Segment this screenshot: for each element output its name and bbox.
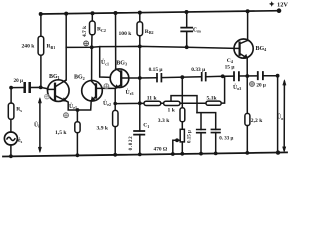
capacitor 20u plates xyxy=(258,72,263,79)
svg-text:RB1: RB1 xyxy=(47,44,56,50)
svg-text:11 k: 11 k xyxy=(147,96,158,102)
resistor 1k body xyxy=(164,101,180,105)
svg-text:12V: 12V xyxy=(277,1,288,8)
test point mark near 1.5k xyxy=(64,113,69,118)
resistor RB2 100k body xyxy=(137,22,143,36)
svg-text:0.15 μ: 0.15 μ xyxy=(188,130,193,143)
arrow Ui measurement xyxy=(39,100,41,151)
test point mark near RC2 xyxy=(84,41,89,46)
resistor RC2 4.7k body xyxy=(90,21,96,35)
wire BG4 collector to rail xyxy=(247,11,249,40)
svg-text:20 μ: 20 μ xyxy=(256,83,265,89)
wire top +12V rail xyxy=(41,11,279,14)
wire shared emitter node to R 1.5k xyxy=(76,110,78,122)
capacitor right bridge plates xyxy=(211,129,220,132)
transistor BG2 xyxy=(82,80,115,101)
resistor 5.1k body xyxy=(206,101,221,105)
arrow Uo xyxy=(283,82,285,151)
capacitor left bridge plates xyxy=(197,130,206,133)
svg-text:BG3: BG3 xyxy=(116,61,127,67)
node junction 5.1k elbow xyxy=(221,74,225,78)
wire BG3 collector to rail xyxy=(115,13,117,69)
test point mark near 20u xyxy=(250,82,255,87)
wire BG3 emitter and BG2 base column xyxy=(114,88,116,103)
wire source to Rs xyxy=(10,119,12,156)
wire BG4 emitter column xyxy=(246,58,248,113)
wire input cap to BG1 base xyxy=(30,87,48,88)
svg-text:5,1k: 5,1k xyxy=(207,95,218,101)
node junction BG4 emitter xyxy=(245,74,249,78)
svg-text:BG1: BG1 xyxy=(49,74,60,80)
svg-text:C4: C4 xyxy=(227,58,233,64)
svg-text:ės: ės xyxy=(18,138,23,144)
svg-text:0.15 μ: 0.15 μ xyxy=(149,67,163,73)
resistor 11k body xyxy=(144,101,161,105)
svg-text:U̇e1: U̇e1 xyxy=(69,103,77,110)
node junction Cm/base-line xyxy=(185,45,189,49)
node junction RC2/base-line xyxy=(90,45,94,49)
wire BG2 emitter down to shared node xyxy=(78,101,92,110)
node junction 470 branch xyxy=(175,138,179,142)
svg-text:RB2: RB2 xyxy=(145,29,154,35)
label +12V supply xyxy=(269,1,288,8)
resistor 2.2k body xyxy=(245,113,250,125)
feedback jog wire xyxy=(171,77,197,129)
wire output column xyxy=(277,76,279,153)
svg-text:U̇e2: U̇e2 xyxy=(103,100,111,107)
transistor BG1 xyxy=(48,80,70,102)
svg-text:15 μ: 15 μ xyxy=(225,65,235,71)
resistor Rs body xyxy=(8,103,14,119)
svg-text:1,5 k: 1,5 k xyxy=(55,130,67,136)
svg-text:C1: C1 xyxy=(143,123,149,129)
svg-text:U̇o3: U̇o3 xyxy=(233,84,241,91)
resistor RC2 4.7k column wire xyxy=(91,13,94,80)
transistor BG4 xyxy=(234,39,253,58)
resistor RB1 240k column wire xyxy=(40,14,42,87)
wire BG3 base from collector line of BG2 xyxy=(100,47,111,78)
wire feedback row xyxy=(115,76,224,103)
svg-text:Rs: Rs xyxy=(16,107,22,113)
node junction y78 wire tap xyxy=(138,76,142,80)
test point mark grey near BG1 base xyxy=(45,94,50,99)
resistor RB1 240k body xyxy=(38,36,44,55)
svg-text:20 μ: 20 μ xyxy=(14,78,23,84)
wire 470 branch xyxy=(173,140,180,153)
resistor 3.9k column xyxy=(114,104,116,155)
capacitor 0.33u plates xyxy=(202,73,206,81)
node output top xyxy=(276,74,280,78)
svg-text:2,2 k: 2,2 k xyxy=(251,118,263,124)
node junction row tap xyxy=(138,101,142,105)
svg-text:U̇e3: U̇e3 xyxy=(126,89,134,96)
source es circle xyxy=(4,132,17,145)
wire base feed line (y47) xyxy=(66,46,234,48)
capacitor 0.15u electrolytic body xyxy=(180,129,184,142)
svg-text:100 k: 100 k xyxy=(119,31,133,37)
svg-text:U̇c1: U̇c1 xyxy=(101,59,109,66)
resistor RB2 100k column xyxy=(139,13,141,131)
wire BG1 emitter down xyxy=(67,101,78,110)
wire bottom ground rail xyxy=(3,152,287,156)
svg-text:BG2: BG2 xyxy=(74,75,85,81)
svg-text:4.7 k: 4.7 k xyxy=(82,26,88,37)
svg-text:0. 33 μ: 0. 33 μ xyxy=(219,137,233,142)
svg-text:240 k: 240 k xyxy=(22,43,36,49)
svg-text:3.3 k: 3.3 k xyxy=(158,118,170,124)
svg-text:1 k: 1 k xyxy=(168,107,176,113)
capacitor Cm plates xyxy=(181,28,192,32)
test point mark between stages xyxy=(104,84,109,89)
wire Rs up to input node xyxy=(11,88,25,104)
transistor BG3 xyxy=(110,69,140,89)
wire lower cap bridge xyxy=(197,113,216,154)
wire y78 coupling line from 100k column xyxy=(140,76,278,78)
node junction 100k/base-line xyxy=(138,45,142,49)
node Rs top junction xyxy=(9,86,13,90)
capacitor 20u input plates xyxy=(25,83,30,92)
resistor 3.3k body xyxy=(180,108,185,122)
svg-text:Cm: Cm xyxy=(193,27,201,33)
capacitor Cm column xyxy=(186,12,188,47)
node bottom rail junction dots xyxy=(9,150,280,158)
wire BG1 collector to rail xyxy=(65,14,66,81)
node input junction xyxy=(39,86,43,90)
svg-text:BG4: BG4 xyxy=(256,46,268,52)
svg-text:0.33 μ: 0.33 μ xyxy=(191,67,205,73)
svg-text:RC2: RC2 xyxy=(97,27,106,33)
node top rail junction dots xyxy=(39,8,282,16)
node emitter row junction xyxy=(113,102,117,106)
node junction y78/feedback tap xyxy=(180,75,184,79)
capacitor 0.15u plates xyxy=(157,74,161,82)
capacitor C4 15u plates xyxy=(234,72,239,80)
svg-text:3,9 k: 3,9 k xyxy=(97,126,109,132)
svg-text:U̇o: U̇o xyxy=(277,114,283,121)
node shared emitter junction xyxy=(76,108,80,112)
resistor 3.9k body xyxy=(113,110,118,126)
capacitor C1 0.022 xyxy=(134,131,144,135)
svg-text:0.022: 0.022 xyxy=(129,136,134,151)
svg-text:470 Ω: 470 Ω xyxy=(154,146,168,152)
resistor 1.5k body xyxy=(75,122,80,133)
